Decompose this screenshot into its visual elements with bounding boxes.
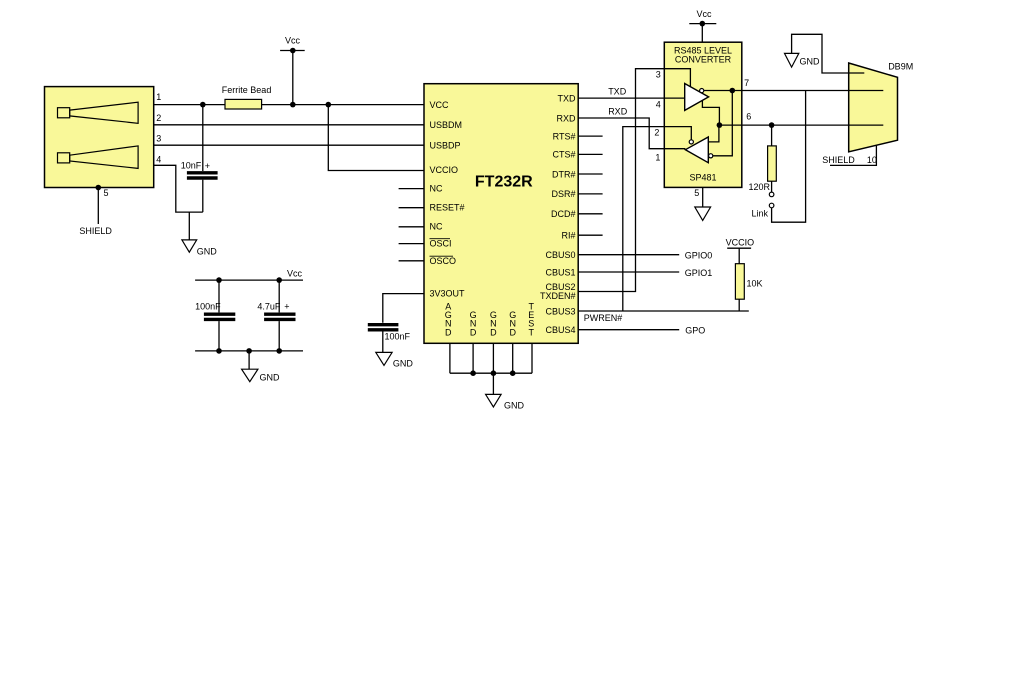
svg-text:RI#: RI# (561, 231, 575, 241)
wire VCC net: USB pin1 to FT232R VCC (154, 104, 424, 106)
svg-text:1: 1 (655, 152, 660, 162)
link jumper terminal bottom (769, 203, 774, 208)
svg-text:SHIELD: SHIELD (79, 226, 112, 236)
power Vcc (top) (280, 36, 305, 105)
receiver enable bubble (689, 140, 693, 144)
stub DCD# pin (578, 213, 602, 215)
junction GND1 (470, 370, 476, 376)
ground (SP481 pin5) (695, 187, 711, 220)
capacitor C3 100nF (195, 280, 235, 351)
ground (10nF) (182, 212, 217, 256)
wire USB pin5 to shield (97, 188, 99, 225)
svg-text:Link: Link (752, 209, 769, 219)
stub NC pin (399, 226, 424, 228)
svg-text:TXD: TXD (558, 93, 577, 103)
wire CBUS4 to GPO (578, 329, 679, 331)
stub RESET# pin (399, 207, 424, 209)
svg-text:3V3OUT: 3V3OUT (430, 288, 466, 298)
svg-text:GND: GND (800, 57, 821, 67)
svg-text:4: 4 (156, 154, 161, 164)
capacitor C2 100nF (3V3OUT) (368, 325, 411, 353)
junction 10nF tap (200, 102, 206, 108)
svg-text:5: 5 (694, 188, 699, 198)
op-amp driver (SP481) (685, 84, 709, 111)
stub RI# pin (578, 234, 602, 236)
capacitor C4 4.7uF (257, 280, 295, 351)
svg-text:3: 3 (656, 70, 661, 80)
stub RTS# pin (578, 135, 602, 137)
ferrite bead FB1 (225, 99, 262, 109)
svg-text:6: 6 (746, 112, 751, 122)
wire DE enable into driver (664, 69, 690, 87)
svg-text:TXDEN#: TXDEN# (540, 291, 576, 301)
stub OSCO pin (399, 260, 424, 262)
svg-text:PWREN#: PWREN# (584, 313, 623, 323)
svg-text:100nF: 100nF (195, 301, 221, 311)
connector J2 DB9M (849, 62, 914, 152)
junction gnd tap (246, 348, 252, 354)
svg-text:+: + (284, 302, 289, 312)
svg-text:GPIO1: GPIO1 (685, 268, 713, 278)
svg-text:GND: GND (504, 400, 525, 410)
svg-text:GND: GND (393, 359, 414, 369)
svg-text:CBUS0: CBUS0 (545, 250, 575, 260)
svg-text:D: D (490, 327, 497, 337)
wire driver output to pin6 (702, 101, 719, 125)
svg-text:DTR#: DTR# (552, 169, 576, 179)
svg-text:10K: 10K (747, 279, 763, 289)
stub DTR# pin (578, 173, 602, 175)
svg-text:RTS#: RTS# (553, 131, 576, 141)
IC U2 SP481 RS485 level converter (664, 42, 742, 187)
wire pin6 line to DB9 (742, 124, 884, 126)
wire receiver input from pin6 (708, 125, 719, 142)
svg-text:D: D (470, 327, 477, 337)
svg-text:RXD: RXD (608, 107, 628, 117)
svg-text:VCCIO: VCCIO (430, 165, 459, 175)
svg-text:USBDP: USBDP (430, 141, 461, 151)
svg-text:4.7uF: 4.7uF (257, 301, 281, 311)
ground (FT232R) (486, 373, 525, 410)
junction Vcc stem (290, 102, 296, 108)
pin OSCO label (430, 256, 457, 266)
junction C3 bottom (216, 348, 222, 354)
wire VCCIO branch: FT232R VCCIO up to VCC net (328, 105, 424, 171)
svg-text:GND: GND (197, 247, 218, 257)
wire CBUS1 to GPIO1 (578, 271, 679, 273)
svg-text:RXD: RXD (556, 113, 576, 123)
DB9 pin6 stub inside (849, 124, 884, 126)
wire receiver bubble to pin7 (713, 91, 733, 156)
junction C4 top (276, 277, 282, 283)
wire ground bus (450, 372, 532, 374)
svg-text:DSR#: DSR# (551, 189, 575, 199)
svg-text:DB9M: DB9M (888, 62, 913, 72)
svg-text:3: 3 (156, 134, 161, 144)
svg-text:Ferrite Bead: Ferrite Bead (222, 85, 272, 95)
svg-text:NC: NC (430, 222, 443, 232)
junction pin6 (717, 122, 723, 128)
wire PWREN net: CBUS3 to SP481 pin2 and 10K (578, 127, 749, 311)
link jumper terminal top (769, 192, 774, 197)
svg-text:1: 1 (156, 92, 161, 102)
svg-text:OSCI: OSCI (430, 238, 452, 248)
svg-text:+: + (205, 161, 210, 171)
junction pin7 (730, 88, 736, 94)
wire GND1 down (472, 343, 474, 373)
svg-text:CONVERTER: CONVERTER (675, 55, 732, 65)
svg-text:Vcc: Vcc (287, 268, 303, 278)
svg-text:CBUS3: CBUS3 (545, 306, 575, 316)
junction USB pin5 (96, 185, 102, 191)
junction GND2 (491, 370, 497, 376)
svg-text:RESET#: RESET# (430, 202, 465, 212)
ground (3V3OUT cap) (376, 352, 414, 368)
junction VCCIO branch (326, 102, 332, 108)
svg-text:TXD: TXD (608, 87, 627, 97)
junction C4 bottom (276, 348, 282, 354)
svg-text:2: 2 (156, 113, 161, 123)
svg-text:GPO: GPO (685, 325, 705, 335)
stub OSCI pin (399, 243, 424, 245)
svg-text:VCCIO: VCCIO (726, 238, 755, 248)
capacitor C1 10nF (181, 105, 218, 213)
svg-text:GND: GND (260, 372, 281, 382)
wire GND3 down (512, 343, 514, 373)
ground (decoupling rail) (242, 351, 280, 383)
driver inverted output bubble (700, 89, 704, 93)
IC U1 FT232R (424, 84, 578, 344)
svg-text:USBDM: USBDM (430, 120, 463, 130)
svg-text:5: 5 (104, 188, 109, 198)
resistor R1 120R (749, 125, 777, 192)
DB9 pin7 stub inside (849, 90, 884, 92)
stub NC pin (399, 188, 424, 190)
svg-text:2: 2 (654, 128, 659, 138)
svg-text:GPIO0: GPIO0 (685, 250, 713, 260)
wire driver bubble to pin7 (704, 90, 742, 92)
wire TXDEN net: CBUS2 to SP481 pin3 (578, 69, 664, 292)
power VCCIO (726, 238, 755, 264)
resistor R2 10K (735, 264, 762, 311)
svg-text:VCC: VCC (430, 100, 450, 110)
stub CTS# pin (578, 153, 602, 155)
wire RXD net: FT232R RXD to SP481 pin1 (578, 118, 664, 149)
stub DSR# pin (578, 193, 602, 195)
svg-text:OSCO: OSCO (430, 256, 457, 266)
wire USB pin4 to GND (154, 165, 203, 212)
junction C3 top (216, 277, 222, 283)
svg-text:CBUS1: CBUS1 (545, 267, 575, 277)
receiver inverting input bubble (709, 154, 713, 158)
wire CBUS0 to GPIO0 (578, 254, 679, 256)
svg-text:7: 7 (744, 78, 749, 88)
power Vcc (SP481) (689, 9, 716, 42)
wire TEST down (531, 343, 533, 373)
svg-text:FT232R: FT232R (475, 174, 533, 191)
svg-text:CBUS4: CBUS4 (545, 325, 575, 335)
svg-text:Vcc: Vcc (697, 9, 713, 19)
wire link to pin7 line (772, 91, 806, 223)
wire TXD net: FT232R TXD to SP481 pin4 (578, 97, 664, 99)
wire pin6 inside (719, 124, 741, 126)
wire USBDP: USB pin3 to FT232R (154, 144, 424, 146)
svg-text:SHIELD: SHIELD (822, 155, 855, 165)
wire USBDM: USB pin2 to FT232R (154, 124, 424, 126)
svg-text:D: D (445, 327, 452, 337)
wire AGND down (449, 343, 451, 373)
pin OSCI label (430, 238, 452, 248)
svg-text:100nF: 100nF (385, 332, 411, 342)
wire Vcc rail (decoupling) (195, 279, 303, 281)
op-amp receiver (SP481) (685, 137, 708, 163)
svg-text:10: 10 (867, 155, 877, 165)
svg-text:10nF: 10nF (181, 161, 202, 171)
svg-text:4: 4 (656, 100, 661, 110)
wire RO to pin1 (664, 148, 685, 150)
DB9 shield pin 10 (822, 145, 877, 165)
wire 3V3OUT to 100nF (383, 294, 424, 323)
svg-text:NC: NC (430, 183, 443, 193)
svg-text:T: T (529, 327, 535, 337)
svg-text:SP481: SP481 (689, 172, 716, 182)
wire RE enable into receiver (664, 127, 691, 140)
wire DI into driver (664, 97, 684, 99)
svg-text:Vcc: Vcc (285, 36, 301, 46)
svg-text:DCD#: DCD# (551, 209, 576, 219)
wire GND2 down (492, 343, 494, 373)
svg-text:CTS#: CTS# (552, 150, 575, 160)
junction GND3 (510, 370, 516, 376)
junction 120R tap (769, 122, 775, 128)
USB connector J1 (45, 87, 154, 188)
svg-text:D: D (509, 327, 516, 337)
svg-text:120R: 120R (749, 182, 771, 192)
ground (DB9 pin5) (785, 34, 865, 73)
wire pin7 line to DB9 (742, 90, 884, 92)
wire ground rail (decoupling) (195, 350, 303, 352)
